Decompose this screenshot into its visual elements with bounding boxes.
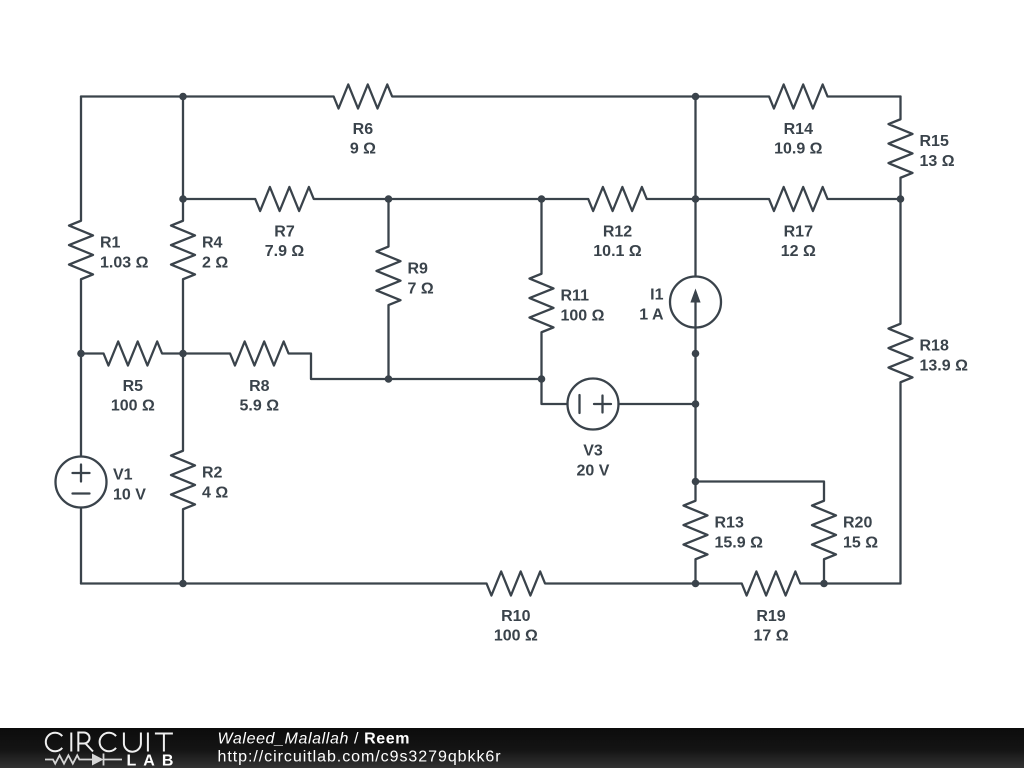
svg-text:V1: V1: [113, 467, 133, 484]
svg-text:R1: R1: [100, 235, 121, 252]
svg-text:http://circuitlab.com/c9s3279q: http://circuitlab.com/c9s3279qbkk6r: [218, 749, 502, 766]
svg-text:R12: R12: [603, 224, 632, 241]
svg-text:V3: V3: [583, 443, 603, 460]
svg-text:R20: R20: [843, 515, 872, 532]
svg-text:100 Ω: 100 Ω: [561, 308, 605, 325]
svg-text:R10: R10: [501, 608, 530, 625]
svg-text:10 V: 10 V: [113, 487, 146, 504]
svg-text:LAB: LAB: [127, 753, 181, 768]
svg-text:7.9 Ω: 7.9 Ω: [265, 243, 305, 260]
svg-text:10.9 Ω: 10.9 Ω: [774, 141, 823, 158]
svg-text:Waleed_Malallah / Reem: Waleed_Malallah / Reem: [218, 731, 411, 748]
svg-text:R9: R9: [408, 260, 429, 277]
svg-text:1 A: 1 A: [639, 307, 664, 324]
svg-text:17 Ω: 17 Ω: [753, 628, 788, 645]
svg-text:R11: R11: [561, 288, 590, 305]
svg-text:10.1 Ω: 10.1 Ω: [593, 243, 642, 260]
svg-text:13 Ω: 13 Ω: [920, 153, 955, 170]
svg-text:4 Ω: 4 Ω: [202, 485, 228, 502]
svg-text:20 V: 20 V: [577, 463, 610, 480]
svg-text:5.9 Ω: 5.9 Ω: [240, 398, 280, 415]
svg-text:R18: R18: [920, 338, 949, 355]
svg-text:100 Ω: 100 Ω: [494, 628, 538, 645]
svg-text:R19: R19: [756, 608, 785, 625]
svg-text:R17: R17: [784, 224, 813, 241]
svg-text:R8: R8: [249, 378, 270, 395]
svg-text:15.9 Ω: 15.9 Ω: [715, 535, 764, 552]
svg-text:9 Ω: 9 Ω: [350, 141, 376, 158]
svg-text:R5: R5: [123, 378, 144, 395]
svg-text:R15: R15: [920, 133, 949, 150]
svg-text:100 Ω: 100 Ω: [111, 398, 155, 415]
svg-text:15 Ω: 15 Ω: [843, 535, 878, 552]
svg-text:1.03 Ω: 1.03 Ω: [100, 255, 149, 272]
svg-text:13.9 Ω: 13.9 Ω: [920, 358, 969, 375]
svg-text:R2: R2: [202, 465, 223, 482]
svg-text:R14: R14: [784, 121, 813, 138]
svg-text:2 Ω: 2 Ω: [202, 255, 228, 272]
svg-text:7 Ω: 7 Ω: [408, 280, 434, 297]
svg-text:R6: R6: [353, 121, 374, 138]
svg-text:I1: I1: [650, 287, 663, 304]
svg-text:R13: R13: [715, 515, 744, 532]
svg-text:R7: R7: [274, 224, 295, 241]
svg-text:R4: R4: [202, 235, 223, 252]
svg-text:12 Ω: 12 Ω: [781, 243, 816, 260]
